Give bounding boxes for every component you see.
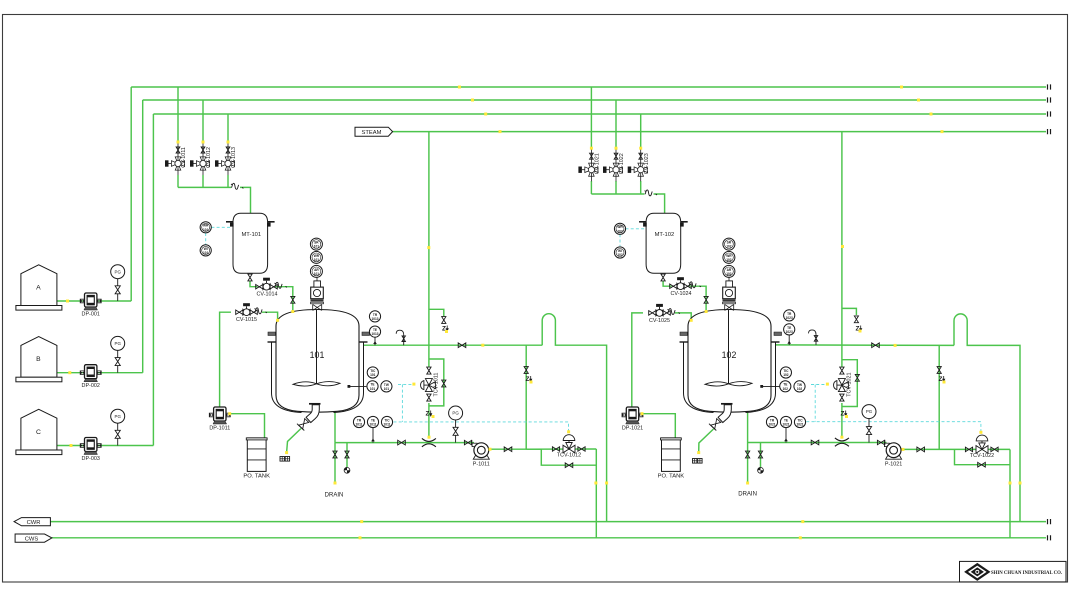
wire: TCV-1022 outlet to CWS bbox=[1009, 449, 1011, 537]
bypass valve TCV-1012 bbox=[565, 463, 573, 468]
instrument TR-1021 bbox=[766, 416, 777, 427]
svg-text:101: 101 bbox=[370, 387, 376, 391]
wire: TCV-1011 bypass loop bbox=[429, 359, 444, 406]
control valve TCV-1012 bbox=[552, 447, 559, 451]
wire: signal to TCV-1022 bbox=[806, 422, 981, 433]
node: grips on CWR CWS bbox=[359, 520, 805, 539]
pressure gauge PG (tank A) bbox=[117, 279, 119, 301]
wire: signal drop (right) bbox=[814, 385, 816, 422]
flex joint CV-1014 bbox=[275, 282, 287, 288]
svg-text:PG: PG bbox=[452, 411, 459, 416]
flex joint CV-1025 bbox=[668, 309, 680, 315]
instrument TE-1023 bbox=[784, 324, 795, 335]
wire: steam header bbox=[393, 131, 1047, 133]
wire: drain drop (right) bbox=[747, 443, 749, 484]
valve manifold (right) bbox=[811, 440, 819, 445]
wire: CV-1012 outlet bbox=[202, 175, 204, 187]
wire: circulation manifold (right) bbox=[748, 442, 887, 444]
vent gooseneck (left) bbox=[403, 335, 405, 346]
wire: CV-1024 to reactor 102 dome bbox=[690, 286, 707, 311]
thermowell line reactor 101 bbox=[349, 385, 366, 387]
svg-text:CV-1011: CV-1011 bbox=[181, 147, 187, 168]
control valve CV-1025 bbox=[649, 311, 656, 315]
node: grips above venturis bbox=[428, 436, 844, 439]
wire: jacket bottom drop (right) bbox=[747, 400, 749, 443]
wire: CWS main bbox=[52, 537, 1046, 539]
sample valve (left) bbox=[345, 451, 349, 458]
svg-text:MT-101: MT-101 bbox=[241, 232, 261, 238]
node: grips at pump discharges bbox=[228, 412, 904, 451]
wire: jacket bottom drop (left) bbox=[334, 400, 336, 443]
stub valve above (right) bbox=[854, 316, 858, 323]
wire: tank C discharge to header 3 bbox=[57, 445, 153, 447]
svg-text:102: 102 bbox=[722, 350, 737, 360]
wire: drop header3 to CV-1013 bbox=[227, 114, 229, 142]
pressure gauge PG (left manifold) bbox=[455, 420, 457, 443]
node: grips on CW risers bbox=[594, 482, 1021, 485]
wire: signal TIC to TCV-1021 bbox=[811, 384, 826, 386]
svg-text:1023: 1023 bbox=[786, 330, 793, 334]
wire: signal to TCV-1012 bbox=[394, 422, 569, 433]
flex joint on collector (left) bbox=[231, 183, 243, 189]
svg-text:TCV-1012: TCV-1012 bbox=[557, 453, 581, 459]
packing label (left) bbox=[280, 457, 284, 462]
svg-text:102: 102 bbox=[726, 245, 732, 249]
control valve CV-1021 bbox=[590, 148, 592, 181]
pump DP-002 bbox=[80, 371, 84, 375]
svg-text:1011: 1011 bbox=[384, 423, 391, 427]
svg-text:CV-1012: CV-1012 bbox=[206, 147, 212, 168]
instrument TW-101 pair b bbox=[381, 381, 392, 392]
svg-text:102: 102 bbox=[617, 229, 623, 233]
bypass valve at TCV-1011 bbox=[442, 380, 446, 387]
valve on jacket line (right) bbox=[872, 343, 880, 348]
wire: crossover down to pump discharge (left) bbox=[525, 345, 527, 449]
svg-text:C: C bbox=[36, 429, 41, 436]
control valve CV-1024 bbox=[670, 284, 677, 288]
wire: DP-1021 discharge to PO tank bbox=[642, 414, 675, 438]
control valve CV-1012 bbox=[202, 142, 204, 175]
instrument SR-102 bbox=[723, 238, 735, 250]
flex joint CV-1024 bbox=[689, 282, 701, 288]
wire: TCV-1012 bypass bbox=[541, 449, 596, 465]
control valve CV-1015 bbox=[236, 310, 243, 314]
svg-text:PG: PG bbox=[115, 269, 122, 274]
node: grips at drains bbox=[334, 482, 750, 485]
wire: signal MT-102 weight bbox=[626, 228, 646, 230]
wire: reactor 102 jacket line bbox=[776, 344, 955, 347]
wire: header line 3 (tank C feed) bbox=[153, 113, 1046, 115]
instrument TR-1013 bbox=[369, 311, 380, 322]
node: grips at TCV actuators bbox=[412, 383, 982, 434]
tap TE-1013 to jacket line bbox=[374, 337, 376, 345]
valve P-1021 discharge bbox=[917, 447, 925, 452]
pressure gauge PG (right manifold) bbox=[868, 419, 870, 443]
pump P-1011 bbox=[472, 443, 477, 446]
packing label (right) bbox=[693, 459, 697, 464]
wire: CV-1023 outlet bbox=[640, 181, 642, 194]
wire: reactor 101 bottom outlet to packing bbox=[287, 429, 301, 453]
svg-text:CV-1024: CV-1024 bbox=[671, 291, 692, 297]
sample pot (left) bbox=[344, 467, 350, 473]
instrument AR-102 bbox=[723, 265, 735, 277]
flag CWR bbox=[14, 518, 50, 526]
svg-text:101: 101 bbox=[384, 387, 390, 391]
node: grips at reactor dome feeds bbox=[276, 310, 707, 322]
svg-text:1023: 1023 bbox=[786, 316, 793, 320]
svg-text:Z: Z bbox=[526, 376, 530, 383]
wire: TCV-1011 outlet to venturi bbox=[428, 403, 430, 437]
node: grips on jacket lines bbox=[481, 344, 896, 347]
valve on jacket line (left) bbox=[458, 343, 466, 348]
wire: DP-1011 riser to CV-1015 bbox=[220, 312, 231, 407]
node: header end terminators at right margin bbox=[1048, 84, 1051, 89]
valve on CV-1024 drop bbox=[704, 296, 708, 303]
instrument TIC-1011 bbox=[381, 416, 392, 427]
svg-text:CWR: CWR bbox=[27, 520, 41, 526]
wire: reactor 101 jacket line bbox=[364, 344, 543, 346]
wire: sample drop (left) bbox=[346, 443, 348, 468]
stub valve above (left) bbox=[442, 317, 446, 324]
valve on CV-1014 drop bbox=[291, 296, 295, 303]
svg-text:1021: 1021 bbox=[796, 423, 803, 427]
valve P-1011 discharge bbox=[504, 447, 512, 452]
instrument TE-1011 bbox=[367, 416, 378, 427]
svg-text:Z: Z bbox=[841, 411, 845, 418]
wire: signal drop (left) bbox=[401, 384, 403, 422]
venturi mixer (right) bbox=[835, 438, 849, 446]
wire: reactor 102 bottom outlet to packing bbox=[699, 429, 714, 453]
svg-text:SHIN CHUAN INDUSTRIAL CO.: SHIN CHUAN INDUSTRIAL CO. bbox=[991, 570, 1063, 576]
wire: signal MT-102 inter bbox=[619, 234, 621, 246]
svg-text:CV-1013: CV-1013 bbox=[231, 147, 237, 168]
instrument WR-101 motor bbox=[310, 251, 322, 263]
wire: header line 2 (tank B feed) bbox=[143, 99, 1046, 101]
tap TE-1023 to jacket line bbox=[788, 335, 790, 345]
node: grips above CV trio valves bbox=[177, 141, 643, 150]
mix tank MT-101 bbox=[233, 213, 268, 273]
wire: sample drop (right) bbox=[760, 443, 762, 468]
wire: CV-1022 outlet bbox=[615, 181, 617, 194]
company logo bbox=[964, 563, 990, 581]
wire: header line 1 (tank A feed) bbox=[131, 86, 1046, 88]
control valve CV-1023 bbox=[640, 148, 642, 181]
instrument TIC-102 bbox=[780, 367, 791, 378]
wire: steam drop to reactor 101 system bbox=[428, 132, 430, 367]
svg-text:TCV-1022: TCV-1022 bbox=[970, 453, 994, 459]
wire: collector to MT-102 (left part) bbox=[591, 193, 644, 195]
instrument TE-102 pair a bbox=[780, 381, 791, 392]
wire: P-1021 discharge through TCV-1022 bbox=[903, 448, 1010, 450]
svg-text:CV-1015: CV-1015 bbox=[236, 317, 257, 323]
wire: signal TIC to TCV-1011 bbox=[398, 383, 413, 385]
tank B bbox=[21, 337, 57, 378]
svg-text:1011: 1011 bbox=[370, 423, 377, 427]
svg-text:TCV-1021: TCV-1021 bbox=[846, 372, 852, 396]
venturi mixer (left) bbox=[422, 438, 436, 446]
wire: signal MT-101 inter bbox=[205, 233, 207, 245]
node: grips at Z markers bbox=[432, 330, 946, 419]
wire: steam drop to reactor 102 system bbox=[841, 132, 843, 367]
flex joint on collector (right) bbox=[645, 190, 657, 196]
svg-text:PO. TANK: PO. TANK bbox=[658, 473, 685, 479]
instrument TW-102 pair b bbox=[794, 381, 805, 392]
svg-text:PG: PG bbox=[866, 409, 873, 414]
svg-text:101: 101 bbox=[314, 272, 320, 276]
svg-text:102: 102 bbox=[617, 253, 623, 257]
svg-text:DP-001: DP-001 bbox=[82, 312, 100, 318]
svg-text:DP-003: DP-003 bbox=[82, 456, 100, 462]
svg-text:DP-002: DP-002 bbox=[82, 383, 100, 389]
sample valve (right) bbox=[758, 451, 762, 458]
wire: TCV-1021 bypass loop bbox=[842, 360, 857, 407]
wire: tank A discharge to header 1 bbox=[57, 300, 131, 302]
svg-text:PG: PG bbox=[115, 414, 122, 419]
svg-text:B: B bbox=[36, 356, 41, 363]
svg-text:101: 101 bbox=[203, 228, 209, 232]
svg-text:Z: Z bbox=[939, 376, 943, 383]
wire: MT-101 outlet bbox=[250, 281, 258, 287]
vent gooseneck (right) bbox=[815, 334, 817, 345]
flag CWS bbox=[15, 534, 52, 542]
control valve CV-1011 bbox=[177, 142, 179, 175]
wire: CV-1011 outlet bbox=[177, 175, 179, 187]
wire: P-1011 discharge bbox=[490, 448, 541, 450]
wire: CV-1025 into reactor 102 dome bbox=[675, 313, 691, 321]
wire: pipe bridge (left) bbox=[542, 314, 606, 522]
instrument TR-1011 bbox=[353, 416, 364, 427]
wire: collector to MT-101 (left part) bbox=[178, 186, 231, 188]
valve under MT-102 bbox=[661, 274, 665, 281]
instrument WI-101 bbox=[200, 245, 211, 256]
control valve TCV-1022 bbox=[965, 447, 972, 451]
wire: CV-1015 into reactor 101 dome bbox=[262, 312, 278, 320]
svg-text:PG: PG bbox=[115, 341, 122, 346]
node: grips on steam drops bbox=[427, 245, 844, 249]
pressure gauge PG (tank B) bbox=[117, 350, 119, 372]
wire: CV-1013 outlet bbox=[227, 175, 229, 187]
svg-text:CWS: CWS bbox=[25, 536, 39, 542]
tap TI trio to manifold (left) bbox=[372, 428, 374, 443]
svg-text:101: 101 bbox=[314, 258, 320, 262]
instrument WR-102 motor bbox=[723, 251, 735, 263]
wire: CWR main bbox=[50, 521, 1046, 523]
svg-text:STEAM: STEAM bbox=[362, 130, 382, 136]
svg-text:CV-1023: CV-1023 bbox=[644, 153, 650, 174]
instrument WR-102 bbox=[614, 223, 625, 234]
wire: tank B discharge to header 2 bbox=[57, 372, 143, 374]
tank C bbox=[21, 409, 57, 450]
drum PO. TANK (left) bbox=[247, 438, 266, 472]
svg-text:DRAIN: DRAIN bbox=[325, 493, 344, 499]
svg-text:Z: Z bbox=[426, 411, 430, 418]
check valve P-1021 suction bbox=[877, 440, 884, 444]
wire: TCV-1022 bypass bbox=[955, 449, 1011, 464]
wire: drain drop (left) bbox=[334, 443, 336, 483]
reactor vessel 102 bbox=[680, 276, 782, 431]
svg-text:TCV-1011: TCV-1011 bbox=[433, 373, 439, 397]
instrument TE-1013 bbox=[369, 326, 380, 337]
svg-text:1011: 1011 bbox=[356, 423, 363, 427]
wire: TCV-1012 outlet to CWS bbox=[595, 449, 597, 538]
control valve CV-1022 bbox=[615, 148, 617, 181]
svg-text:102: 102 bbox=[726, 272, 732, 276]
wire: collector into MT-102 top bbox=[654, 194, 665, 213]
svg-text:102: 102 bbox=[797, 387, 803, 391]
svg-text:CV-1021: CV-1021 bbox=[595, 153, 601, 174]
bypass valve TCV-1022 bbox=[978, 462, 986, 467]
wire: stub branch with valve (Z) bbox=[429, 309, 444, 316]
instrument WR-101 bbox=[200, 222, 211, 233]
node: grips at packing lines bbox=[285, 451, 700, 454]
check valve P-1011 suction bbox=[464, 440, 471, 444]
sample pot (right) bbox=[758, 467, 764, 473]
pump DP-001 bbox=[80, 299, 84, 303]
flex joint CV-1015 bbox=[255, 308, 267, 314]
svg-text:DRAIN: DRAIN bbox=[738, 492, 757, 498]
wire: drop header1 to CV-1011 bbox=[177, 87, 179, 142]
svg-text:1021: 1021 bbox=[782, 423, 789, 427]
wire: CV-1021 outlet bbox=[590, 181, 592, 194]
title block bbox=[960, 561, 1067, 582]
wire: DP-1021 riser to CV-1025 bbox=[632, 313, 643, 408]
svg-text:101: 101 bbox=[370, 373, 376, 377]
flag STEAM bbox=[355, 127, 393, 136]
pump P-1021 bbox=[884, 443, 889, 446]
wire: CV-1014 to reactor 101 dome bbox=[276, 287, 293, 312]
svg-text:P-1021: P-1021 bbox=[885, 462, 902, 468]
svg-text:101: 101 bbox=[310, 350, 325, 360]
wire: DP-1011 discharge to PO tank bbox=[230, 414, 265, 438]
instrument AR-101 bbox=[310, 265, 322, 277]
svg-text:DP-1011: DP-1011 bbox=[209, 426, 230, 432]
instrument TIC-101 bbox=[367, 367, 378, 378]
pressure gauge PG (tank C) bbox=[117, 423, 119, 445]
svg-text:1021: 1021 bbox=[768, 423, 775, 427]
svg-text:CV-1025: CV-1025 bbox=[649, 318, 670, 324]
svg-text:101: 101 bbox=[314, 245, 320, 249]
wire: drop header2 to CV-1022 bbox=[615, 100, 617, 148]
svg-text:102: 102 bbox=[783, 387, 789, 391]
wire: header 1 left downcomer bbox=[130, 87, 132, 301]
mix tank MT-102 bbox=[646, 213, 681, 273]
valve under MT-101 bbox=[248, 274, 252, 281]
svg-text:A: A bbox=[36, 285, 41, 292]
wire: MT-102 outlet bbox=[663, 281, 671, 286]
instrument TIC-1021 bbox=[794, 416, 805, 427]
instrument SR-101 bbox=[310, 238, 322, 250]
svg-text:DP-1021: DP-1021 bbox=[622, 426, 643, 432]
wire: drop header2 to CV-1012 bbox=[202, 100, 204, 142]
svg-text:102: 102 bbox=[783, 373, 789, 377]
instrument TR-1023 bbox=[784, 310, 795, 321]
wire: TCV-1021 outlet to venturi bbox=[841, 403, 843, 437]
thermowell line reactor 102 bbox=[762, 385, 780, 387]
wire: signal MT-101 weight bbox=[211, 226, 232, 228]
drum PO. TANK (right) bbox=[662, 438, 681, 472]
svg-text:101: 101 bbox=[203, 251, 209, 255]
bypass valve at TCV-1021 bbox=[855, 374, 859, 381]
wire: header 3 left downcomer bbox=[152, 114, 154, 446]
drain valve (right) bbox=[745, 451, 749, 458]
three-way valve TCV-1011 bbox=[427, 367, 431, 374]
three-way valve TCV-1021 bbox=[840, 367, 844, 374]
wire: pipe bridge (right) bbox=[954, 314, 1020, 522]
node: grips on headers bbox=[458, 86, 944, 134]
wire: header 2 left downcomer bbox=[142, 100, 144, 373]
control valve CV-1013 bbox=[227, 142, 229, 175]
wire: drop header1 to CV-1021 bbox=[590, 87, 592, 148]
instrument TE-101 pair a bbox=[367, 381, 378, 392]
svg-text:1013: 1013 bbox=[371, 332, 378, 336]
wire: collector into MT-101 top bbox=[240, 187, 251, 213]
pump DP-003 bbox=[80, 444, 84, 448]
svg-text:MT-102: MT-102 bbox=[655, 232, 675, 238]
valve manifold (left) bbox=[398, 440, 406, 445]
wire: drop header3 to CV-1023 bbox=[640, 114, 642, 148]
tank A bbox=[21, 265, 57, 306]
pump DP-1011 bbox=[209, 413, 213, 417]
pump DP-1021 bbox=[622, 413, 626, 417]
tap TI trio to manifold (right) bbox=[785, 428, 787, 443]
wire: line through TCV-1012 bbox=[526, 448, 596, 450]
reactor vessel 101 bbox=[268, 276, 370, 431]
control valve CV-1014 bbox=[256, 284, 263, 288]
svg-text:PO. TANK: PO. TANK bbox=[243, 473, 270, 479]
wire: circulation manifold (left) bbox=[335, 442, 474, 444]
instrument TE-1021 bbox=[780, 416, 791, 427]
wire: crossover down to pump discharge (right) bbox=[938, 345, 940, 449]
svg-text:102: 102 bbox=[726, 258, 732, 262]
instrument WI-102 bbox=[614, 247, 625, 258]
drain valve (left) bbox=[333, 451, 337, 458]
svg-text:P-1011: P-1011 bbox=[473, 462, 490, 468]
svg-text:CV-1022: CV-1022 bbox=[619, 153, 625, 174]
wire: stub branch with valve (Z) right bbox=[842, 308, 857, 315]
svg-text:1013: 1013 bbox=[371, 317, 378, 321]
valve on crossover (left) bbox=[524, 367, 528, 374]
node: grips on tank discharge lines bbox=[66, 300, 73, 448]
valve on crossover (right) bbox=[937, 367, 941, 374]
svg-text:CV-1014: CV-1014 bbox=[257, 292, 278, 298]
